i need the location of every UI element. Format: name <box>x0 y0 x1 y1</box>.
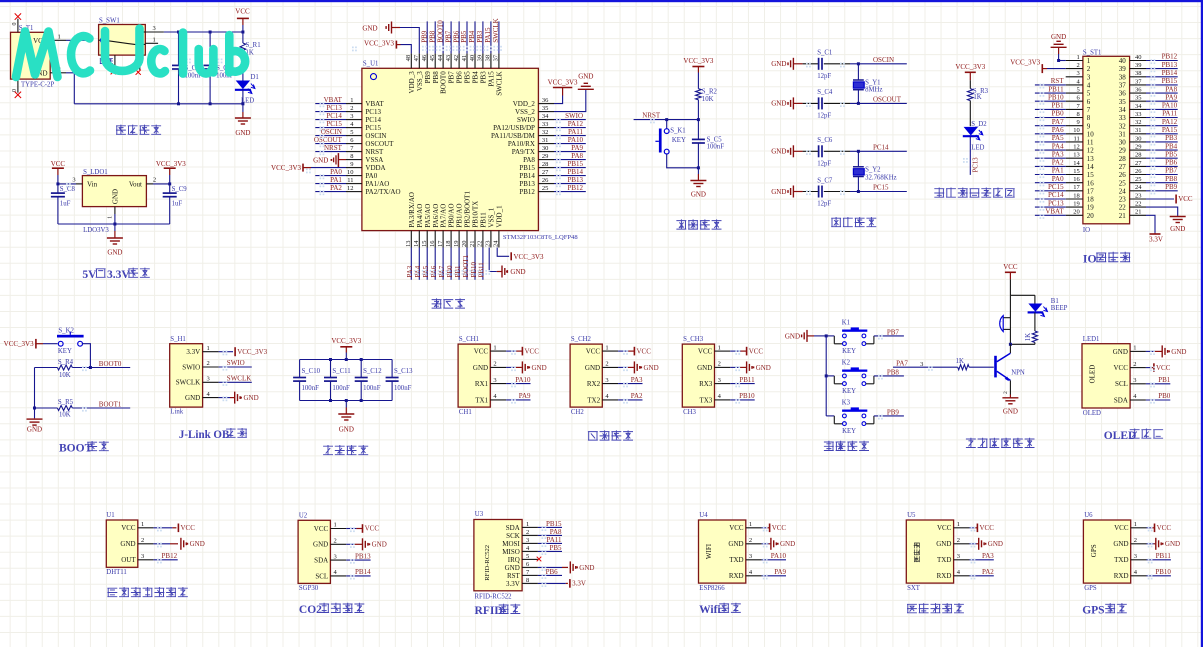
title 摄像头模块 <box>907 603 964 613</box>
svg-text:2: 2 <box>1077 62 1080 69</box>
svg-text:2: 2 <box>1087 65 1091 73</box>
wire/net PB13 (U2 pin3) <box>346 552 371 560</box>
svg-text:100nF: 100nF <box>363 385 381 392</box>
pin U1 42 PB6 <box>453 53 464 83</box>
svg-text:1: 1 <box>350 97 353 104</box>
svg-text:PA0: PA0 <box>365 172 377 180</box>
svg-text:OLED: OLED <box>1089 365 1097 384</box>
svg-text:GND: GND <box>691 190 706 198</box>
svg-text:RX3: RX3 <box>699 380 713 388</box>
svg-text:1uF: 1uF <box>172 200 183 207</box>
title BOOT电路 <box>59 441 109 454</box>
svg-text:6: 6 <box>1087 98 1091 106</box>
pin ST1 32 <box>1119 119 1146 130</box>
svg-text:1: 1 <box>1133 345 1136 352</box>
pin S_SW1 1 <box>145 36 160 52</box>
svg-text:PC15: PC15 <box>365 124 381 132</box>
pin U1 11 PA1/AO <box>346 177 389 188</box>
svg-text:11: 11 <box>1087 139 1094 147</box>
pin S_CH1 4 TX1 <box>475 393 506 404</box>
svg-text:U5: U5 <box>907 512 916 519</box>
pin S_SW1 4 (unused) <box>136 55 141 75</box>
svg-text:GND: GND <box>756 364 771 372</box>
svg-text:PC13: PC13 <box>973 157 980 173</box>
svg-text:PB8: PB8 <box>1165 175 1178 183</box>
ground GND (U6 pin2) <box>1147 538 1181 550</box>
label 开关 under S_SW1 <box>100 59 113 64</box>
pin ST1 34 <box>1119 103 1146 114</box>
wire/net PB1 at ST1 left <box>1035 102 1066 110</box>
svg-text:27: 27 <box>1119 163 1127 171</box>
svg-text:PA10: PA10 <box>515 376 531 384</box>
wire/net PA9 at U1 right <box>554 144 586 152</box>
junction filter GND stem <box>345 399 348 402</box>
svg-text:PB0: PB0 <box>1158 392 1171 400</box>
wire/net PB13 at U1 right <box>554 176 586 184</box>
connector U4 ESP8266 <box>699 512 746 592</box>
svg-text:9: 9 <box>1087 122 1091 130</box>
svg-text:S_C13: S_C13 <box>394 368 413 375</box>
wire/net PA5 at ST1 left <box>1035 134 1066 142</box>
junction Vout/C9 <box>168 182 171 185</box>
svg-text:PB8: PB8 <box>887 368 900 376</box>
svg-text:PC15: PC15 <box>326 120 342 128</box>
svg-text:PB3: PB3 <box>480 71 488 84</box>
svg-text:PA9: PA9 <box>1165 93 1177 101</box>
svg-text:SCK: SCK <box>506 532 520 540</box>
svg-text:26: 26 <box>1135 168 1142 175</box>
capacitor S_C7 12pF <box>803 177 850 207</box>
svg-text:PB10: PB10 <box>470 261 478 277</box>
svg-text:VDDA: VDDA <box>365 164 385 172</box>
power port VCC (U4 pin1) <box>762 524 787 533</box>
title 5V转3.3V电路 <box>82 268 149 281</box>
wire/net PA0 at ST1 left <box>1035 175 1066 183</box>
pin U1 9 VDDA <box>346 161 386 172</box>
pin U1 29 PA8 <box>523 153 554 164</box>
power port VCC_3V3 (ST1 pin2) <box>1010 59 1065 73</box>
wire/net PB10 (S_CH3 pin4) <box>730 392 755 400</box>
pin ST1 14 <box>1066 160 1095 171</box>
pin ST1 31 <box>1119 127 1146 138</box>
svg-text:21: 21 <box>1119 212 1127 220</box>
svg-text:OSCIN: OSCIN <box>365 132 386 140</box>
ground GND (LDO block) <box>107 224 123 256</box>
power port VCC (U2 pin1) <box>346 524 379 533</box>
svg-text:PA2/TX/AO: PA2/TX/AO <box>365 188 400 196</box>
pin U4 2 GND <box>728 537 761 548</box>
svg-text:3: 3 <box>1077 70 1080 77</box>
svg-text:PA12: PA12 <box>568 120 584 128</box>
wire/net PB11 at U1 bottom <box>478 248 486 280</box>
svg-text:17: 17 <box>1087 187 1095 195</box>
svg-text:GND: GND <box>579 564 594 572</box>
svg-text:PB0/AO: PB0/AO <box>448 203 456 227</box>
wire/net OSCIN at U1 left <box>315 128 346 136</box>
svg-text:GND: GND <box>510 268 525 276</box>
svg-text:VCC_3V3: VCC_3V3 <box>955 63 985 71</box>
svg-text:PB15: PB15 <box>567 160 583 168</box>
svg-text:PB14: PB14 <box>1162 69 1178 77</box>
pin LED1 2 VCC <box>1113 361 1145 372</box>
svg-text:23: 23 <box>1119 196 1127 204</box>
svg-text:PA10: PA10 <box>568 136 584 144</box>
svg-text:1K: 1K <box>956 358 964 365</box>
pin U1 10 PA0 <box>346 169 378 180</box>
mcu S_U1 STM32F103C8T6_LQFP48 <box>362 61 578 241</box>
svg-text:CH1: CH1 <box>459 409 472 416</box>
pin U1 45 PB8 <box>429 53 440 83</box>
pin U1 26 PB13 <box>519 177 554 188</box>
svg-text:23: 23 <box>485 241 492 248</box>
wire/net PB12 at U1 right <box>554 184 586 192</box>
wire/net PB8 at ST1 right <box>1146 175 1178 183</box>
wire/net PA11 at U1 right <box>554 128 586 136</box>
svg-text:GND: GND <box>771 100 786 108</box>
pin U1 37 SWCLK <box>493 53 504 95</box>
ground GND (crystal PC14) <box>771 145 802 157</box>
svg-text:VCC_3V3: VCC_3V3 <box>1010 59 1040 67</box>
wire/net PB6 at U1 top <box>452 21 460 53</box>
wire/net PA7 at ST1 left <box>1035 118 1066 126</box>
svg-text:PB11: PB11 <box>478 262 486 278</box>
svg-text:5: 5 <box>1087 90 1091 98</box>
wire/net PB14 (U2 pin4) <box>346 568 371 576</box>
svg-text:PB14: PB14 <box>519 172 535 180</box>
ground GND (keys) <box>785 330 826 342</box>
svg-text:46: 46 <box>421 54 428 61</box>
svg-text:VSSA: VSSA <box>365 156 383 164</box>
svg-text:Vin: Vin <box>87 180 98 188</box>
svg-text:18: 18 <box>445 241 452 248</box>
svg-text:PB5: PB5 <box>1165 150 1178 158</box>
wire/net PA2 (U5 pin4) <box>969 568 994 576</box>
svg-text:2: 2 <box>957 537 960 544</box>
svg-text:12pF: 12pF <box>817 160 831 167</box>
svg-text:PB8: PB8 <box>428 30 436 43</box>
svg-text:VCC: VCC <box>1178 195 1193 203</box>
svg-text:S_U1: S_U1 <box>363 61 379 68</box>
svg-text:GND: GND <box>644 364 659 372</box>
svg-text:39: 39 <box>477 55 484 62</box>
svg-text:0: 0 <box>12 23 18 26</box>
svg-text:KEY: KEY <box>842 348 856 355</box>
pin ST1 10 <box>1066 127 1095 138</box>
pin U1 31 PA10/RX <box>508 137 554 148</box>
svg-text:PB6: PB6 <box>1165 159 1178 167</box>
svg-text:RX1: RX1 <box>475 380 489 388</box>
svg-text:U3: U3 <box>475 511 484 518</box>
pin S_SW1 3 <box>145 25 164 32</box>
title CO2检测模块 <box>299 603 364 616</box>
wire/net PB1 at U1 bottom <box>454 248 462 280</box>
junction NRST/K1 <box>665 118 668 121</box>
svg-text:PA3: PA3 <box>406 265 414 277</box>
wire/net PA8 at U1 right <box>554 152 586 160</box>
svg-text:10: 10 <box>347 169 354 176</box>
pin U1 18 PB0/AO <box>445 203 456 247</box>
svg-text:VSS_3: VSS_3 <box>416 71 424 91</box>
pin U1 40 PB4 <box>469 53 480 83</box>
svg-text:VCC: VCC <box>235 7 250 15</box>
svg-text:32.768KHz: 32.768KHz <box>865 174 897 181</box>
svg-text:37: 37 <box>1119 82 1127 90</box>
ground GND (ST1 pin1) <box>1051 33 1067 62</box>
svg-text:2: 2 <box>605 361 608 368</box>
capacitor S_C10 100nF <box>293 360 321 401</box>
svg-text:S_C1: S_C1 <box>817 50 832 57</box>
pin ST1 35 <box>1119 95 1146 106</box>
svg-text:PB11: PB11 <box>1048 85 1064 93</box>
svg-text:GND: GND <box>235 129 250 137</box>
svg-text:PB13: PB13 <box>567 176 583 184</box>
resistor S_R2 10K <box>696 89 718 103</box>
pin U3 3 MOSI <box>502 537 538 548</box>
wire/net PA12 at ST1 right <box>1146 118 1178 126</box>
svg-text:1: 1 <box>1087 57 1091 65</box>
svg-text:39: 39 <box>1135 62 1142 69</box>
svg-text:PB5: PB5 <box>464 71 472 84</box>
pin ST1 8 <box>1066 111 1091 122</box>
svg-text:SCL: SCL <box>315 572 328 580</box>
power port VCC (S_CH3 pin1) <box>730 347 763 356</box>
svg-text:PA9/TX: PA9/TX <box>512 148 535 156</box>
wire/net PB11 (U6 pin3) <box>1147 552 1172 560</box>
wire/net PC15 at U1 left <box>315 120 346 128</box>
pin H1 4 GND <box>185 391 219 402</box>
junction keys K2 <box>825 374 828 377</box>
wire/net PA1 at U1 left <box>315 176 346 184</box>
pin U1 14 PA4/AO <box>413 204 424 248</box>
wire/net PB8 (K2) <box>874 368 904 376</box>
wire/net PB7 (K1) <box>874 328 904 336</box>
svg-text:VCC: VCC <box>980 524 995 532</box>
svg-text:GPS: GPS <box>1082 605 1104 617</box>
svg-text:PB10: PB10 <box>739 392 755 400</box>
svg-text:GND: GND <box>473 364 488 372</box>
svg-text:GND: GND <box>585 364 600 372</box>
wire/net BOOT0 <box>72 360 130 368</box>
svg-text:PB7: PB7 <box>1165 167 1178 175</box>
svg-text:PA12/USB/DP: PA12/USB/DP <box>493 124 535 132</box>
svg-text:SCL: SCL <box>1115 380 1128 388</box>
pin LDO1 1 GND <box>107 207 115 219</box>
svg-text:13: 13 <box>1073 152 1080 159</box>
wire/net PA11 (U3 pin3) <box>538 536 562 544</box>
svg-text:PA15: PA15 <box>488 71 496 87</box>
svg-text:PC13: PC13 <box>1048 199 1064 207</box>
junction filter top <box>329 358 332 361</box>
svg-text:S_Y2: S_Y2 <box>865 167 881 174</box>
svg-text:VCC_3V3: VCC_3V3 <box>156 160 186 168</box>
pin U1 1 VBAT <box>346 97 384 108</box>
svg-text:ESP8266: ESP8266 <box>699 585 725 592</box>
power port VCC (U5 pin1) <box>969 524 994 533</box>
svg-text:VCC_3V3: VCC_3V3 <box>271 164 301 172</box>
svg-text:40: 40 <box>1119 57 1127 65</box>
svg-text:S_R2: S_R2 <box>702 89 718 96</box>
svg-text:GND: GND <box>1171 348 1186 356</box>
pin S_SW1 2 (unused) <box>111 55 116 74</box>
ground GND (S_CH2 pin2) <box>618 361 659 373</box>
svg-text:36: 36 <box>1119 90 1127 98</box>
svg-text:PC14: PC14 <box>1048 191 1064 199</box>
svg-text:1: 1 <box>718 344 721 351</box>
pin U1 39 PB3 <box>477 53 488 83</box>
svg-text:32: 32 <box>1135 119 1142 126</box>
svg-text:38: 38 <box>485 55 492 62</box>
svg-text:PB8: PB8 <box>432 71 440 84</box>
pin U1 44 BOOT0 <box>437 53 448 93</box>
svg-text:GND: GND <box>785 332 800 340</box>
svg-text:17: 17 <box>1073 184 1080 191</box>
svg-text:S_R4: S_R4 <box>58 359 74 366</box>
svg-text:GND: GND <box>988 540 1003 548</box>
svg-text:VBAT: VBAT <box>324 96 343 104</box>
svg-text:1: 1 <box>1134 521 1137 528</box>
junction bottom at C3 <box>209 102 212 105</box>
svg-text:8: 8 <box>1087 114 1091 122</box>
pin S_CH3 4 TX3 <box>699 393 730 404</box>
title 晶振电路 <box>831 217 876 227</box>
pin U4 1 VCC <box>729 521 761 532</box>
wire/net PA3 (U5 pin3) <box>969 552 994 560</box>
svg-text:1: 1 <box>526 521 529 528</box>
svg-text:S_C11: S_C11 <box>332 368 350 375</box>
svg-text:41: 41 <box>461 55 468 62</box>
wire/net BOOT1 <box>72 401 130 409</box>
wire alarm collector node <box>1009 343 1035 346</box>
svg-text:20: 20 <box>1073 209 1080 216</box>
wire/net OSCOUT <box>850 96 907 104</box>
wire/net PB4 at ST1 right <box>1146 142 1178 150</box>
svg-text:PB10: PB10 <box>1048 93 1064 101</box>
svg-text:PA10/RX: PA10/RX <box>508 140 535 148</box>
junction K2/BOOT0 <box>89 366 92 369</box>
pin U1 22 PB11 <box>477 212 488 248</box>
svg-text:29: 29 <box>1135 144 1142 151</box>
junction keys K1 <box>825 334 828 337</box>
svg-text:RST: RST <box>1051 77 1065 85</box>
capacitor S_C5 100nF <box>692 136 724 150</box>
sensor U1 DHT11 <box>106 512 138 576</box>
svg-text:TX2: TX2 <box>587 396 600 404</box>
svg-text:PA3: PA3 <box>982 552 994 560</box>
pin ST1 17 <box>1066 184 1095 195</box>
ground GND (ST1 pin22) <box>1146 207 1186 233</box>
svg-text:S_CH1: S_CH1 <box>459 336 479 343</box>
svg-text:38: 38 <box>1135 70 1142 77</box>
svg-text:32: 32 <box>1119 122 1127 130</box>
svg-text:GND: GND <box>190 540 205 548</box>
svg-text:PA1: PA1 <box>1052 167 1064 175</box>
pin U1 33 PA12/USB/DP <box>493 121 554 132</box>
svg-text:GND: GND <box>936 540 951 548</box>
svg-text:PB12: PB12 <box>567 184 583 192</box>
junction PC14 <box>857 150 860 153</box>
svg-text:PA11: PA11 <box>568 128 584 136</box>
wire keys left vertical <box>825 336 827 416</box>
pin ST1 26 <box>1119 168 1146 179</box>
svg-text:PC13: PC13 <box>326 104 342 112</box>
svg-text:VCC: VCC <box>1156 364 1171 372</box>
wire/net PB11 (S_CH3 pin3) <box>730 376 755 384</box>
svg-text:15: 15 <box>1073 168 1080 175</box>
connector U5 SXT <box>906 512 953 592</box>
resistor R7 1K (alarm base) <box>893 358 994 370</box>
connector S_CH2 CH2 <box>570 336 602 416</box>
wire/net PB14 at ST1 right <box>1146 69 1178 77</box>
svg-text:S_Y1: S_Y1 <box>865 79 881 86</box>
svg-text:39: 39 <box>1119 65 1127 73</box>
wire R2 to node <box>697 100 699 168</box>
pin U6 4 RXD <box>1114 569 1147 580</box>
wire K2 to BOOT0 net <box>83 344 91 368</box>
wire/net PA3 at ST1 left <box>1035 150 1066 158</box>
svg-text:GND: GND <box>771 148 786 156</box>
wire/net PB11 at ST1 left <box>1035 85 1066 93</box>
pin ST1 20 <box>1066 209 1095 220</box>
svg-text:3: 3 <box>141 553 144 560</box>
pin U1 41 PB5 <box>461 53 472 83</box>
pin ST1 29 <box>1119 144 1146 155</box>
svg-text:47: 47 <box>413 54 420 61</box>
junction C5/K1/GND <box>697 166 700 169</box>
svg-text:2: 2 <box>350 105 353 112</box>
svg-text:U1: U1 <box>106 512 114 519</box>
wire/net PC14 at ST1 left <box>1035 191 1066 199</box>
title 声光报警电路 <box>966 438 1035 448</box>
svg-text:31: 31 <box>1119 130 1127 138</box>
pin U1 46 PB9 <box>421 53 432 83</box>
svg-text:S_CH2: S_CH2 <box>571 336 592 343</box>
wire filter bottom net <box>300 400 393 402</box>
junction OSCOUT <box>857 102 860 105</box>
svg-text:VCC_3V3: VCC_3V3 <box>237 348 267 356</box>
title Wifi模块 <box>699 603 741 616</box>
svg-text:GND: GND <box>107 248 122 256</box>
pin ST1 22 <box>1119 201 1146 212</box>
svg-text:SWCLK: SWCLK <box>227 375 252 383</box>
svg-text:24: 24 <box>1119 187 1127 195</box>
svg-text:27: 27 <box>542 169 549 176</box>
svg-text:VCC: VCC <box>698 348 713 356</box>
svg-text:VCC_3V3: VCC_3V3 <box>364 40 394 48</box>
pin ST1 39 <box>1119 62 1146 73</box>
svg-text:18: 18 <box>1087 196 1095 204</box>
svg-text:GND: GND <box>1113 348 1128 356</box>
svg-text:PB13: PB13 <box>355 552 371 560</box>
svg-text:NRST: NRST <box>365 148 384 156</box>
wire/net PA5 at U1 bottom <box>422 248 430 280</box>
wire/net PB4 at U1 top <box>468 21 476 53</box>
svg-text:3.3V: 3.3V <box>1149 236 1163 244</box>
svg-text:8: 8 <box>350 153 353 160</box>
svg-text:3.3V: 3.3V <box>506 580 520 588</box>
svg-text:VCC_3V3: VCC_3V3 <box>683 57 713 65</box>
pin H1 2 SWIO <box>182 360 218 371</box>
wire/net PA2 at ST1 left <box>1035 159 1066 167</box>
svg-text:KEY: KEY <box>58 348 72 355</box>
svg-text:Link: Link <box>170 409 183 416</box>
connector S_T1 TYPE-C-2P <box>11 23 55 93</box>
ground GND (crystal OSCIN) <box>771 58 802 70</box>
svg-text:3: 3 <box>1133 377 1136 384</box>
power port VCC_3V3 (H1 pin1) <box>219 347 268 356</box>
wire/net PA10 at U1 right <box>554 136 586 144</box>
svg-text:J-Link OB: J-Link OB <box>179 429 230 441</box>
svg-text:15: 15 <box>421 241 428 248</box>
